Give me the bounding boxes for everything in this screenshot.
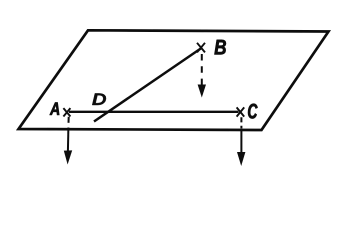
label C [248,104,257,119]
point B cross [197,43,205,53]
vector arrow from A: solid shaft below plane edge [67,128,70,152]
vector arrow from A: dashed above plane edge [68,117,70,123]
plane parallelogram [19,30,329,130]
segment BD extended past D [94,48,202,122]
segment AC [69,111,239,113]
arrowhead of A vector [64,150,72,164]
vector arrow from B (dashed, inside plane) [201,54,203,86]
vector arrow from C: dashed above plane edge [240,117,242,128]
arrowhead of C vector [237,152,245,166]
label D [92,93,106,105]
point C cross [237,107,245,116]
label A [50,103,60,115]
point A cross [63,108,70,116]
label B [215,40,226,55]
vector arrow from C: solid shaft below plane edge [240,131,242,154]
arrowhead of B vector [198,85,206,98]
